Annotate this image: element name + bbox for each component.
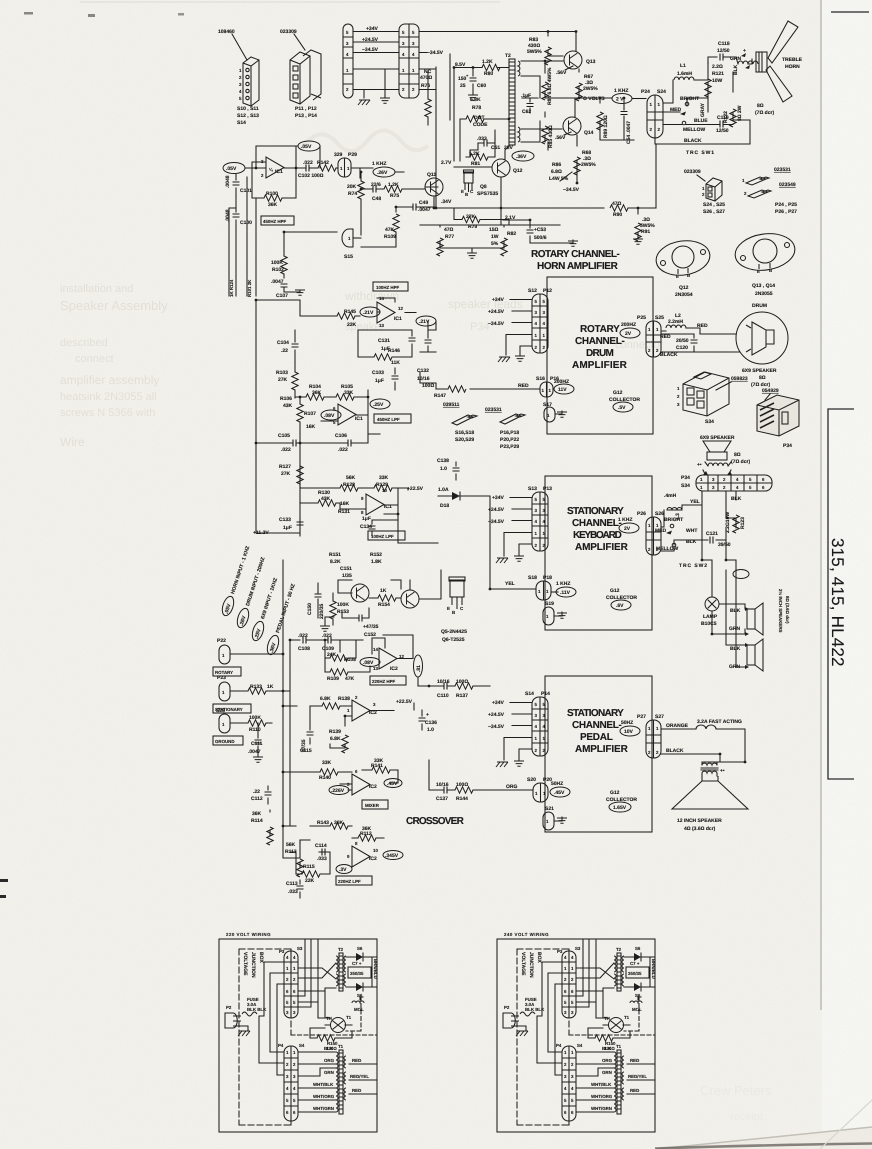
svg-text:BLACK: BLACK [666,748,684,754]
svg-text:P11 , P12: P11 , P12 [295,106,317,112]
svg-text:S18: S18 [528,575,537,581]
resistor R127 27K [297,466,303,484]
wire into S16 [470,388,540,390]
connector P26 S26 [637,511,664,517]
svg-text:P24: P24 [641,89,650,95]
svg-text:6.8K: 6.8K [330,736,341,742]
svg-text:BLACK: BLACK [684,138,702,144]
svg-text:16K: 16K [306,424,316,430]
op-amp IC2d [352,846,370,867]
capacitor C115 47/35 [309,706,311,744]
svg-text:.3V: .3V [339,867,347,873]
svg-text:BLACK: BLACK [660,352,678,358]
capacitor C120 20/50 [693,334,695,352]
svg-text:IC1: IC1 [355,416,363,422]
T2 secondary winding bottom [518,127,520,142]
svg-text:C107: C107 [276,293,288,299]
svg-text:.26V: .26V [377,170,388,176]
plug pins drawing [746,177,771,198]
svg-text:+C53: +C53 [534,227,546,233]
wire q cluster [338,570,441,599]
arrow marks [741,53,750,69]
svg-text:S14: S14 [237,120,246,126]
svg-text:240 VOLT WIRING: 240 VOLT WIRING [504,932,549,937]
svg-text:HORN AMPLIFIER: HORN AMPLIFIER [537,261,619,272]
resistor R143 36K [330,823,348,829]
oval .345V [383,851,403,860]
+34V rail [353,31,399,33]
svg-text:R76: R76 [421,83,430,89]
boxed 220HZ LPF [336,876,372,885]
svg-text:039511: 039511 [443,402,460,408]
svg-text:C104: C104 [277,340,289,346]
svg-text:STATIONARY: STATIONARY [567,506,624,517]
svg-text:+: + [743,48,746,54]
wire filter output to keyboard amp [384,514,438,543]
svg-text:C108: C108 [298,646,310,652]
svg-text:.22: .22 [253,789,260,795]
wire P24 to switch top [663,80,673,103]
TREBLE HORN label [782,57,803,70]
capacitor C152 47/35 [359,615,362,622]
pin2 ground wire [520,346,532,355]
resistor R85 430ohm [542,126,548,144]
svg-text:12: 12 [398,306,403,311]
svg-text:installation and: installation and [60,283,133,295]
wire into box [551,591,558,593]
svg-text:TREBLE: TREBLE [782,57,803,63]
svg-text:R112: R112 [360,831,372,837]
svg-text:1.2K: 1.2K [482,59,493,65]
connector S20/P20 [533,783,548,802]
oval .25V [370,399,390,409]
transistor package Q8 [464,170,474,192]
svg-text:C133: C133 [279,517,291,523]
ground under R82 [440,248,504,252]
wire P22 to bus [230,653,283,655]
wires crossover nets [283,772,352,874]
svg-text:1.2K: 1.2K [469,151,480,157]
svg-text:P23,P29: P23,P29 [500,444,519,450]
oval .21V left [360,307,380,317]
svg-text:P12: P12 [543,288,552,294]
svg-text:GROUND: GROUND [215,739,235,744]
oval .36V pedal input label [265,582,297,656]
svg-text:P24 , P25: P24 , P25 [775,202,797,208]
svg-text:E: E [757,269,760,274]
capacitor C102 .022 [306,165,309,172]
svg-text:33K: 33K [344,390,354,396]
svg-text:S20: S20 [527,777,536,783]
connector S13 P13 header [528,486,552,492]
svg-text:R78: R78 [472,105,481,111]
svg-text:O VOLTS: O VOLTS [583,96,605,102]
op-amp IC1c [338,404,356,425]
svg-text:E: E [461,189,464,194]
svg-text:CHANNEL-: CHANNEL- [572,518,622,529]
resistor R144 100ohm [455,787,473,793]
capacitor C121 39/50 [706,531,731,548]
connector S20 P20 header [527,777,552,783]
svg-text:R110: R110 [249,727,261,733]
svg-text:(7Ω dcr): (7Ω dcr) [731,459,750,465]
transistor can Q5 Q6 [449,577,465,609]
oval 2ohm [733,570,749,579]
resistor R103 27K [292,372,298,390]
crossover bus verticals [283,560,300,858]
capacitor C105 .022 [293,440,296,447]
svg-text:47Ω: 47Ω [444,227,454,233]
svg-text:22K: 22K [347,322,357,328]
svg-text:023549: 023549 [779,182,796,188]
svg-text:43K: 43K [321,496,331,502]
svg-text:059823: 059823 [731,376,748,382]
svg-text:100K: 100K [337,602,349,608]
oval .08V a [360,658,380,667]
capacitor C119 12/50 [716,115,729,134]
P24,P25 P26,P27 labels [775,202,797,215]
drum cone [746,322,774,355]
ground under R153 [325,617,334,625]
svg-text:6X9 SPEAKER: 6X9 SPEAKER [742,368,777,374]
S24,S25 S26,S27 labels [703,202,725,215]
svg-text:8Ω: 8Ω [734,452,741,458]
oval .45V c [384,779,402,788]
wire gray vertical [687,98,708,112]
GRAY label rotated [700,102,706,117]
svg-text:−34.5V: −34.5V [563,187,580,193]
resistor R122 8ohm [732,72,734,120]
pin1 ground wire [506,335,532,356]
capacitor C51 .033 [478,138,495,143]
svg-text:25: 25 [460,83,466,89]
svg-text:R109: R109 [327,676,339,682]
svg-text:R133: R133 [250,684,262,690]
svg-text:220HZ HPF: 220HZ HPF [372,679,395,684]
capacitor C101 .0048 [235,174,237,196]
svg-text:27K: 27K [281,471,291,477]
ground under C53 [568,241,578,246]
svg-text:C105: C105 [278,433,290,439]
transistor Q13 [564,51,582,69]
svg-text:GRAY: GRAY [700,102,706,117]
resistor R68 .3ohm [576,135,578,170]
svg-text:HORN: HORN [785,64,800,70]
svg-text:S24: S24 [657,89,666,95]
svg-text:11K: 11K [391,360,400,366]
svg-text:+34V: +34V [366,26,378,32]
resistor R112 36K [358,835,376,841]
svg-text:S19: S19 [545,601,554,607]
pin2 wire [353,69,399,98]
capacitor C112 .22 [267,786,269,804]
wire bus to S15 [229,232,337,296]
svg-text:36K: 36K [312,390,322,396]
svg-text:Wire: Wire [60,435,85,449]
svg-text:BLK: BLK [730,646,741,652]
resistor R90 47ohm [610,205,628,211]
P16..P29 labels [500,430,519,450]
220 volt junction box [219,939,378,1132]
svg-text:220 VOLT WIRING: 220 VOLT WIRING [226,932,271,937]
connector P34 S34 horizontal strip [681,475,690,489]
svg-text:RED: RED [518,383,529,389]
capacitor C49 [396,207,436,212]
svg-text:CROSSOVER: CROSSOVER [406,816,465,827]
svg-text:.022: .022 [281,447,291,453]
wire bottom filter [256,300,340,536]
8 ohm label [731,452,750,465]
svg-text:+24.5V: +24.5V [488,309,505,315]
svg-text:1.6mH: 1.6mH [677,71,692,77]
svg-text:.56V: .56V [556,70,567,76]
pin2 ground wire [519,749,532,760]
svg-text:TRC SW1: TRC SW1 [686,150,714,156]
resistor R104 36K [306,394,324,400]
svg-text:.6V: .6V [616,603,624,609]
svg-text:G12: G12 [610,790,620,796]
svg-text:100Ω: 100Ω [456,679,468,685]
horn driver [756,52,767,72]
capacitor C108 .022 [303,637,306,644]
plug 023531b drawing [500,414,525,424]
resistor R81 1.2K [466,130,495,157]
resistor R130 43K [318,500,336,506]
svg-text:C49: C49 [419,200,428,206]
wire mellow row [663,124,682,126]
svg-text:2W5%: 2W5% [583,86,598,92]
svg-text:100Ω: 100Ω [456,782,468,788]
svg-text:C103: C103 [372,370,384,376]
svg-text:R114: R114 [251,818,263,824]
svg-text:22K: 22K [305,878,315,884]
svg-text:329: 329 [334,152,343,158]
svg-text:S16,S18: S16,S18 [455,430,474,436]
wire filter mid row [256,434,380,443]
op-amp IC2c MIXER [352,774,370,795]
resistor R114 36K [269,810,271,836]
drum amplifier box [547,277,653,434]
connector strip P11/P12 (double) [399,24,419,98]
wire into IC1b [256,298,436,330]
inductor L1 1.6mH [677,63,692,77]
svg-text:¼: ¼ [269,167,273,172]
svg-text:43K: 43K [283,403,293,409]
svg-text:IC2: IC2 [390,666,398,672]
svg-text:2V: 2V [625,331,632,337]
resistor R142 [309,167,318,169]
connector S34 3D [683,372,729,416]
svg-text:36K: 36K [252,811,262,817]
svg-text:R89 120Ω: R89 120Ω [603,115,609,138]
8 ohm label [755,103,774,116]
svg-text:S26 , S27: S26 , S27 [703,209,725,215]
svg-text:S12 , S13: S12 , S13 [237,113,259,119]
op-amp IC1b [377,302,395,323]
svg-text:R144: R144 [456,796,468,802]
6x9 speaker label [742,368,777,388]
svg-text:+22.5V: +22.5V [407,486,424,492]
svg-text:R103: R103 [276,370,288,376]
svg-text:P22: P22 [217,638,226,644]
svg-text:Q14: Q14 [584,130,594,136]
svg-text:S15: S15 [344,254,353,260]
svg-text:2.7V: 2.7V [441,160,452,166]
svg-text:.022: .022 [322,633,332,639]
svg-text:described: described [60,337,108,349]
capacitor C110 10/16 [444,683,447,690]
svg-text:R137: R137 [456,693,468,699]
svg-text:C110: C110 [437,693,449,699]
resistor R79 27K [454,208,509,225]
capacitor C48 22/6 [361,188,384,190]
svg-text:L1: L1 [680,63,686,69]
bottom rail horn amp [420,177,604,225]
svg-text:100Ω: 100Ω [422,383,434,389]
ground near C107 [295,290,305,295]
svg-text:450HZ LPF: 450HZ LPF [377,417,400,422]
wire rail to R91 [628,208,656,214]
svg-text:1μF: 1μF [375,378,384,384]
svg-text:16K: 16K [340,501,350,507]
svg-text:Q13: Q13 [586,59,596,65]
svg-text:20/50: 20/50 [676,338,689,344]
S16,S18 S20,S29 labels [455,430,474,443]
capacitor C118 12/50 [717,41,746,54]
svg-text:C100: C100 [240,220,252,226]
svg-text:AMPLIFIER: AMPLIFIER [575,744,629,755]
svg-text:R109: R109 [384,234,396,240]
svg-text:C106: C106 [335,433,347,439]
wire P29 to oval to R74 [351,168,404,178]
svg-text:4Ω (3.6Ω dcr): 4Ω (3.6Ω dcr) [684,826,716,832]
resistor R128 56K [340,485,358,491]
connector P34 3D [757,395,799,436]
svg-text:2.2mH: 2.2mH [668,319,683,325]
wire keyboard input [470,496,536,589]
svg-text:.0047: .0047 [418,207,431,213]
capacitor C103 1uF [394,368,396,390]
12 inch speaker label [677,818,722,832]
svg-text:100HZ HPF: 100HZ HPF [376,285,399,290]
resistor R67 .3ohm [578,69,580,98]
svg-text:.25V: .25V [373,402,384,408]
svg-text:B10C5: B10C5 [701,621,717,627]
capacitor C54 .0047 [623,98,625,140]
top edge streak [80,1,500,3]
svg-text:6.8K: 6.8K [320,696,331,702]
chassis ground [496,762,508,767]
svg-text:R151: R151 [329,552,341,558]
svg-text:C113: C113 [286,881,298,887]
svg-text:.033: .033 [317,856,327,862]
svg-text:1μF: 1μF [283,525,292,531]
connector strip S14/P14 [532,697,548,756]
svg-text:1 KHZ: 1 KHZ [372,161,386,167]
plug 039511 drawing [452,415,477,425]
svg-text:1.0: 1.0 [427,727,434,733]
svg-text:R101 2K: R101 2K [247,279,252,297]
svg-text:C54 .0047: C54 .0047 [626,121,632,144]
svg-text:−34.5V: −34.5V [488,321,505,327]
capacitor C116 [421,710,423,730]
oval .226V [329,786,349,795]
oval .8V vertical [414,655,423,677]
svg-text:Q8: Q8 [480,184,487,190]
wire around IC1a [245,146,320,180]
+34V rail to amplifier [419,31,576,33]
svg-text:R81: R81 [471,161,480,167]
oval .36V [512,151,534,161]
svg-text:1.8K: 1.8K [371,559,382,565]
svg-text:8Ω: 8Ω [759,375,766,381]
svg-text:.56V: .56V [555,135,566,141]
resistor R100 36K [264,195,282,201]
boxed 100HZ HPF [373,282,408,291]
wire Q12 collector [505,146,509,160]
corner specks [24,12,33,15]
svg-text:56K: 56K [346,475,356,481]
svg-text:Q11: Q11 [427,172,436,178]
svg-text:P23: P23 [217,675,226,681]
svg-text:.36V: .36V [516,154,527,160]
svg-text:8Ω (3.6Ω dcr): 8Ω (3.6Ω dcr) [785,596,790,624]
240 volt junction box [497,939,656,1132]
resistor R75 1.2K [384,186,402,192]
oval .6V [611,600,631,610]
svg-text:C132: C132 [417,368,429,374]
svg-text:B: B [465,192,468,197]
svg-text:R145: R145 [344,309,356,315]
svg-text:.226V: .226V [331,788,345,794]
svg-text:+47/35: +47/35 [363,624,379,630]
svg-text:MIXER: MIXER [365,803,380,808]
resistor R123 2.2ohm 10W [735,491,737,528]
capacitor C53 500/6 [530,220,573,243]
chassis ground [358,100,370,105]
svg-text:.21V: .21V [363,310,374,316]
wire filter to S16 [420,352,436,383]
svg-text:500/6: 500/6 [534,235,547,241]
resistor R102 100K [271,260,284,273]
svg-text:S25: S25 [655,315,664,321]
ground at S17 [555,411,562,414]
resistor R113 56K [299,840,301,868]
svg-text:+•: +• [720,768,725,774]
svg-text:.5V: .5V [618,405,626,411]
capacitor C60 150/25 [472,68,474,95]
wire IC2a out [372,635,437,686]
svg-text:S12: S12 [528,288,537,294]
connector S14 P14 header [525,691,550,697]
wire R86 arrows [548,142,572,181]
svg-text:.022: .022 [298,633,308,639]
svg-text:BLK: BLK [733,64,739,75]
svg-text:RED: RED [660,334,671,340]
svg-text:C121: C121 [706,531,718,537]
svg-text:C134: C134 [360,524,372,530]
capacitor C100 .0048 [235,196,237,230]
wire mellow to C121 [661,540,702,551]
svg-text:P29: P29 [348,152,357,158]
svg-text:10/16: 10/16 [436,782,449,788]
inductor L3 .4mH [664,493,677,499]
resistor R137 100ohm [455,683,473,689]
svg-text:C120: C120 [676,345,688,351]
svg-text:AMPLIFIER: AMPLIFIER [572,360,628,371]
svg-text:AMPLIFIER: AMPLIFIER [575,542,629,553]
svg-text:22/6: 22/6 [371,182,381,188]
